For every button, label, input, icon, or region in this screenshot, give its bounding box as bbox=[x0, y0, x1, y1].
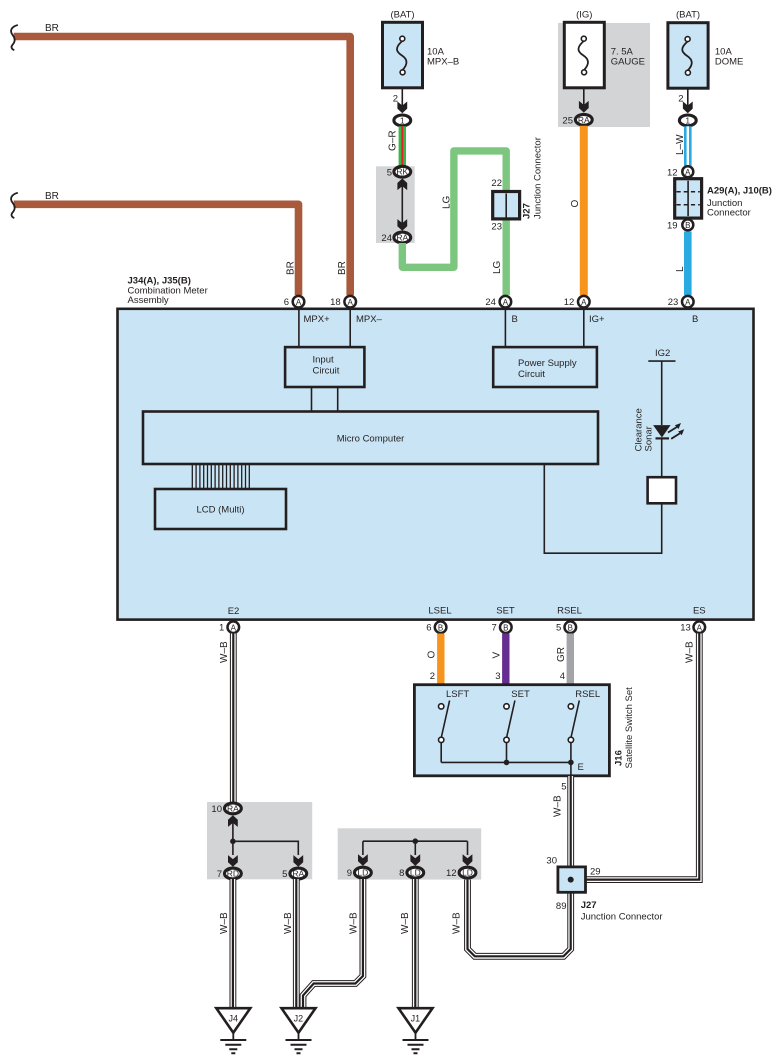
svg-text:6: 6 bbox=[284, 297, 289, 308]
svg-text:LD: LD bbox=[357, 868, 368, 878]
svg-text:E: E bbox=[578, 762, 584, 773]
svg-text:5: 5 bbox=[561, 782, 566, 793]
micro computer block bbox=[143, 412, 598, 465]
svg-text:19: 19 bbox=[667, 221, 678, 232]
svg-text:RA: RA bbox=[292, 869, 304, 879]
svg-text:SET: SET bbox=[511, 689, 530, 700]
svg-text:18: 18 bbox=[330, 297, 341, 308]
svg-text:89: 89 bbox=[556, 901, 567, 912]
svg-text:LG: LG bbox=[442, 195, 453, 209]
wire G-R fuse connector to RK bbox=[388, 126, 403, 167]
wire O from RA(25) to meter pin 12 bbox=[580, 126, 588, 295]
svg-text:G–R: G–R bbox=[388, 130, 399, 151]
wire W-B switch E to 12(LD) via J27 bbox=[468, 776, 571, 956]
svg-text:A: A bbox=[685, 298, 691, 307]
power supply circuit block bbox=[493, 347, 597, 387]
svg-text:J27: J27 bbox=[581, 900, 597, 911]
svg-text:2: 2 bbox=[430, 671, 435, 682]
switch RSEL bbox=[568, 689, 600, 762]
svg-text:IG2: IG2 bbox=[655, 348, 670, 359]
svg-text:BR: BR bbox=[337, 261, 348, 275]
harness arrow into RA(10) bbox=[228, 815, 238, 827]
svg-text:30: 30 bbox=[546, 856, 557, 867]
svg-text:Satellite Switch Set: Satellite Switch Set bbox=[624, 687, 635, 769]
svg-text:1: 1 bbox=[685, 115, 690, 125]
svg-text:Connector: Connector bbox=[707, 208, 751, 219]
switch SET bbox=[504, 689, 530, 762]
label J16 Satellite Switch Set bbox=[614, 687, 636, 769]
svg-text:MPX–: MPX– bbox=[356, 314, 383, 325]
connector pin 12 A (A29) bbox=[682, 166, 693, 177]
svg-text:Micro Computer: Micro Computer bbox=[337, 434, 405, 445]
junction connector A29(A), J10(B) bbox=[675, 179, 772, 219]
combination meter assembly box J34(A) J35(B) bbox=[118, 309, 754, 620]
svg-text:6: 6 bbox=[426, 623, 431, 634]
svg-text:Sonar: Sonar bbox=[644, 426, 655, 451]
LED clearance sonar bbox=[653, 423, 684, 439]
LCD (Multi) block bbox=[155, 489, 286, 529]
connector pin 7 RD bbox=[225, 868, 242, 879]
connector pin 9 LD bbox=[355, 867, 372, 878]
grey shading around GAUGE fuse bbox=[558, 23, 650, 127]
svg-text:Assembly: Assembly bbox=[128, 295, 169, 306]
svg-text:Junction Connector: Junction Connector bbox=[533, 137, 544, 219]
svg-text:12: 12 bbox=[564, 297, 575, 308]
svg-text:J4: J4 bbox=[228, 1014, 238, 1024]
grey shading around RA/RD/RA connector group bbox=[207, 802, 312, 879]
fuse GAUGE 7.5A bbox=[564, 10, 645, 88]
svg-text:A: A bbox=[348, 298, 354, 307]
wire O meter LSEL to switch pin 2 bbox=[427, 634, 441, 685]
connector pin 8 LD bbox=[407, 867, 424, 878]
wire fuse DOME to connector 1 bbox=[678, 88, 692, 113]
svg-text:B: B bbox=[692, 314, 698, 325]
svg-text:RSEL: RSEL bbox=[557, 606, 582, 617]
wire GR meter RSEL to switch pin 4 bbox=[556, 634, 570, 685]
meter pin 1 A (E2) bbox=[228, 621, 240, 633]
svg-text:Junction Connector: Junction Connector bbox=[581, 912, 663, 923]
wire BR (MPX-) horizontal+vertical to pin 18 bbox=[14, 37, 351, 296]
svg-text:RSEL: RSEL bbox=[575, 689, 600, 700]
wire in LD group with junction bbox=[363, 838, 468, 855]
svg-text:W–B: W–B bbox=[219, 641, 230, 663]
pin name labels along top edge bbox=[304, 314, 699, 325]
wire W-B meter pin1 E2 to RA(10) bbox=[219, 634, 233, 804]
harness arrow into RD(7) bbox=[228, 855, 238, 867]
svg-text:BR: BR bbox=[45, 23, 59, 34]
svg-text:12: 12 bbox=[667, 167, 678, 178]
svg-text:B: B bbox=[503, 623, 508, 632]
ground J2 bbox=[282, 1008, 316, 1053]
svg-text:E2: E2 bbox=[228, 606, 240, 617]
meter pin 23 A (B) bbox=[682, 296, 694, 308]
satellite switch set box J16 bbox=[414, 685, 609, 776]
svg-text:22: 22 bbox=[491, 178, 502, 189]
harness arrow into LD(12) bbox=[463, 854, 473, 866]
svg-text:LD: LD bbox=[462, 868, 473, 878]
connector pin 5 RA bbox=[290, 868, 307, 879]
svg-text:1: 1 bbox=[400, 115, 405, 125]
connector pin 1 (DOME) bbox=[679, 115, 696, 126]
svg-text:LCD (Multi): LCD (Multi) bbox=[196, 505, 244, 516]
svg-text:23: 23 bbox=[491, 222, 502, 233]
pin name labels along bottom edge bbox=[228, 606, 706, 618]
svg-text:MPX–B: MPX–B bbox=[427, 57, 459, 68]
svg-text:RA: RA bbox=[396, 233, 408, 243]
connector pin 10 RA bbox=[225, 803, 242, 814]
svg-text:24: 24 bbox=[381, 233, 392, 244]
svg-text:10: 10 bbox=[211, 804, 222, 815]
wire W-B LD(8) to ground J1 bbox=[400, 879, 415, 1008]
svg-text:J1: J1 bbox=[411, 1014, 421, 1024]
label J34(A), J35(B) Combination Meter Assembly bbox=[128, 276, 208, 307]
svg-text:J16: J16 bbox=[614, 750, 625, 766]
svg-text:29: 29 bbox=[590, 867, 601, 878]
svg-text:W–B: W–B bbox=[283, 912, 294, 934]
svg-text:4: 4 bbox=[560, 671, 565, 682]
wire resistor block to micro computer bbox=[544, 464, 661, 553]
wire W-B meter pin13 ES to J27 pin 29 bbox=[586, 634, 699, 880]
svg-text:RA: RA bbox=[227, 803, 239, 813]
harness arrow into RA(5) bbox=[293, 855, 303, 867]
svg-text:5: 5 bbox=[387, 167, 392, 178]
svg-text:A29(A), J10(B): A29(A), J10(B) bbox=[707, 186, 772, 197]
connector pin 5 RK bbox=[394, 166, 411, 177]
svg-text:A: A bbox=[231, 623, 237, 632]
wire W-B RA(5) to ground J2 bbox=[283, 879, 296, 1008]
wire L from A29 pin 19 to meter pin 23 bbox=[684, 232, 692, 296]
svg-text:W–B: W–B bbox=[685, 641, 696, 663]
svg-text:23: 23 bbox=[668, 297, 679, 308]
svg-text:7: 7 bbox=[217, 869, 222, 880]
svg-text:Power Supply: Power Supply bbox=[518, 358, 577, 369]
svg-text:W–B: W–B bbox=[553, 795, 564, 817]
common line to node E bbox=[441, 760, 584, 776]
svg-text:RA: RA bbox=[578, 115, 590, 125]
svg-text:12: 12 bbox=[446, 868, 457, 879]
cut squiggle wire BR 1 bbox=[11, 25, 18, 50]
svg-text:RD: RD bbox=[227, 869, 239, 879]
harness arrow into LD(8) bbox=[410, 854, 420, 866]
svg-text:1: 1 bbox=[219, 623, 224, 634]
svg-text:(IG): (IG) bbox=[576, 10, 592, 21]
svg-text:2: 2 bbox=[393, 94, 398, 105]
connector pin 12 LD bbox=[459, 867, 476, 878]
meter pin 6 B (LSEL) bbox=[435, 621, 447, 633]
svg-text:O: O bbox=[427, 651, 438, 659]
wire IG2 to LED bbox=[661, 361, 663, 425]
wire fuse GAUGE to connector RA bbox=[579, 88, 589, 113]
svg-text:5: 5 bbox=[556, 623, 561, 634]
svg-text:Circuit: Circuit bbox=[313, 366, 340, 377]
svg-text:A: A bbox=[581, 298, 587, 307]
svg-text:13: 13 bbox=[680, 623, 691, 634]
ground J1 bbox=[399, 1008, 433, 1053]
svg-text:RK: RK bbox=[396, 167, 408, 177]
cut squiggle wire BR 2 bbox=[11, 193, 18, 218]
stub wires input circuit to micro computer bbox=[312, 387, 338, 412]
connector pin 1 (MPX-B) bbox=[394, 115, 411, 126]
ground J4 bbox=[216, 1008, 250, 1053]
svg-text:GR: GR bbox=[556, 647, 567, 662]
meter pin 5 B (RSEL) bbox=[565, 621, 577, 633]
svg-text:(BAT): (BAT) bbox=[676, 10, 700, 21]
svg-text:A: A bbox=[296, 298, 302, 307]
svg-text:L–W: L–W bbox=[675, 134, 686, 155]
svg-text:O: O bbox=[570, 200, 581, 208]
internal stub wires from top pins bbox=[299, 310, 584, 347]
meter pin 7 B (SET) bbox=[500, 621, 512, 633]
svg-text:5: 5 bbox=[282, 869, 287, 880]
svg-text:3: 3 bbox=[495, 671, 500, 682]
svg-text:9: 9 bbox=[347, 868, 352, 879]
meter pin 12 A (IG+) bbox=[578, 296, 590, 308]
svg-text:BR: BR bbox=[45, 191, 59, 202]
connector pin 24 RA bbox=[394, 232, 411, 243]
svg-text:IG+: IG+ bbox=[589, 314, 605, 325]
wire BR (MPX+) horizontal+vertical to pin 6 bbox=[14, 204, 299, 295]
svg-text:2: 2 bbox=[678, 94, 683, 105]
svg-text:GAUGE: GAUGE bbox=[611, 57, 645, 68]
junction connector J27 (pins 22/23) bbox=[491, 137, 543, 232]
fuse DOME 10A bbox=[668, 10, 744, 89]
connector pin 25 RA (GAUGE) bbox=[575, 114, 592, 125]
wire L-W from connector 1 to A29 pin 12 bbox=[675, 126, 688, 166]
svg-text:B: B bbox=[512, 314, 518, 325]
svg-text:V: V bbox=[492, 652, 503, 659]
connector pin 19 B (A29) bbox=[682, 219, 693, 230]
svg-text:W–B: W–B bbox=[219, 912, 230, 934]
wire W-B RD(7) to ground J4 bbox=[219, 879, 233, 1008]
meter pin 6 A (MPX+) bbox=[293, 296, 305, 308]
hatch bus micro computer to LCD bbox=[192, 464, 249, 489]
svg-text:LSFT: LSFT bbox=[446, 689, 469, 700]
svg-text:LD: LD bbox=[410, 868, 421, 878]
wire V meter SET to switch pin 3 bbox=[492, 634, 506, 685]
svg-text:DOME: DOME bbox=[715, 57, 744, 68]
input circuit block bbox=[285, 347, 364, 387]
svg-text:L: L bbox=[675, 266, 686, 272]
svg-text:MPX+: MPX+ bbox=[304, 314, 331, 325]
meter pin 24 A (B) bbox=[500, 296, 512, 308]
harness arrow into LD(9) bbox=[358, 854, 368, 866]
wire W-B LD(9) to ground J2 bbox=[303, 879, 363, 1008]
wire fuse MPX-B to connector 1 bbox=[393, 88, 407, 113]
svg-text:B: B bbox=[568, 623, 573, 632]
wire LED to resistor block bbox=[661, 440, 663, 478]
harness arrows RK to RA bbox=[397, 178, 407, 230]
svg-text:ES: ES bbox=[693, 606, 706, 617]
svg-text:W–B: W–B bbox=[349, 912, 360, 934]
grey shading around RK/RA connector pair bbox=[376, 166, 415, 243]
svg-text:J27: J27 bbox=[522, 203, 533, 219]
svg-text:Input: Input bbox=[313, 355, 334, 366]
node IG2 bbox=[648, 348, 675, 361]
svg-text:W–B: W–B bbox=[452, 912, 463, 934]
svg-text:LSEL: LSEL bbox=[428, 606, 451, 617]
svg-text:SET: SET bbox=[496, 606, 515, 617]
switch LSFT bbox=[439, 689, 470, 762]
svg-text:(BAT): (BAT) bbox=[390, 10, 414, 21]
svg-text:25: 25 bbox=[562, 115, 573, 126]
meter pin 13 A (ES) bbox=[694, 621, 706, 633]
svg-text:A: A bbox=[685, 168, 691, 177]
meter pin 18 A (MPX-) bbox=[344, 296, 356, 308]
fuse MPX-B 10A bbox=[383, 10, 460, 88]
svg-text:A: A bbox=[697, 623, 703, 632]
svg-text:W–B: W–B bbox=[400, 912, 411, 934]
svg-text:A: A bbox=[503, 298, 509, 307]
svg-text:Circuit: Circuit bbox=[518, 369, 545, 380]
label Clearance Sonar bbox=[634, 408, 655, 451]
wire RA(10) junction to RD and RA bbox=[230, 823, 298, 855]
svg-text:J2: J2 bbox=[294, 1014, 304, 1024]
resistor block (clearance sonar) bbox=[648, 477, 676, 503]
grey shading around LD connector group bbox=[338, 828, 482, 879]
junction connector J27 (pins 30/29/89) bbox=[556, 867, 663, 923]
svg-text:24: 24 bbox=[485, 297, 496, 308]
svg-text:B: B bbox=[685, 221, 690, 230]
svg-text:BR: BR bbox=[286, 261, 297, 275]
svg-text:7: 7 bbox=[492, 623, 497, 634]
wire LG from RA to meter pin 24 via J27 bbox=[402, 151, 506, 295]
svg-text:8: 8 bbox=[399, 868, 404, 879]
svg-text:B: B bbox=[438, 623, 443, 632]
svg-text:LG: LG bbox=[492, 260, 503, 274]
